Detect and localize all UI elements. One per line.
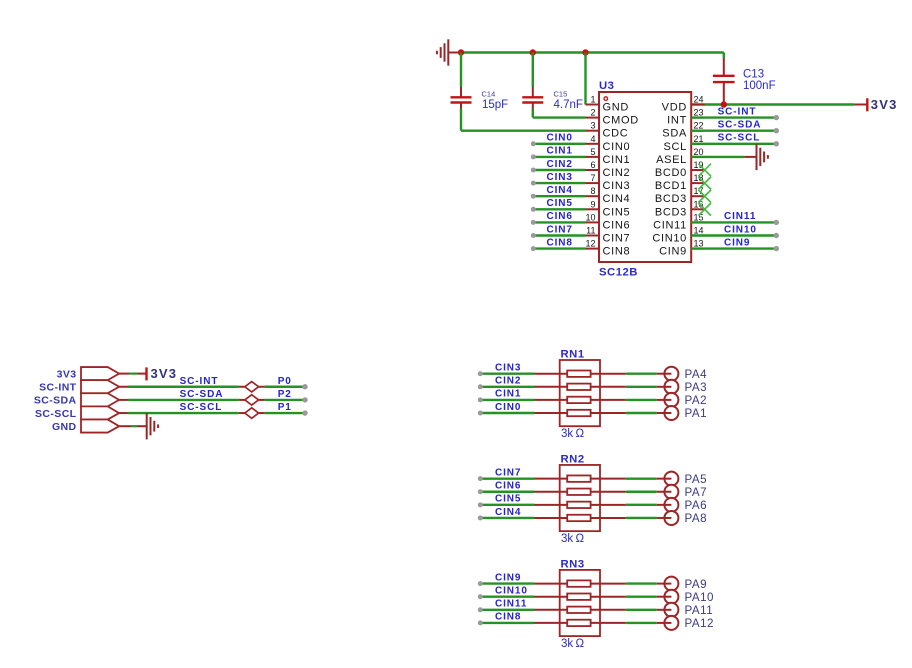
svg-text:C13: C13 [743,69,764,81]
resistor lead right RN3.2 [591,596,626,598]
wire-end dot CIN0 [478,411,483,416]
svg-text:P2: P2 [278,389,292,400]
svg-text:22: 22 [694,121,704,131]
wire RN1 row 2 to pin [626,386,657,388]
pin 11 stub [586,235,600,237]
wire SC-SCL from pin 21 [691,143,776,145]
resistor body RN1.2 [567,384,590,390]
wire-end dot CIN11 [478,607,483,612]
resistor lead right RN2.4 [591,517,626,519]
svg-text:SC-SDA: SC-SDA [34,395,77,407]
wire-end dot P2 [302,397,307,402]
resistor lead left RN1.4 [535,412,568,414]
svg-text:10: 10 [585,212,595,222]
svg-text:CIN6: CIN6 [495,481,521,492]
wire-end dot SC-SDA [774,128,779,133]
svg-text:CIN1: CIN1 [547,146,573,157]
svg-text:CIN11: CIN11 [495,599,527,610]
svg-text:CIN8: CIN8 [547,237,573,248]
pin circle PA3 [664,380,678,394]
pin circle PA10 [664,590,678,604]
resistor body RN1.4 [567,410,590,416]
power symbol 3V3 right [854,98,867,111]
pin 13 stub [691,248,705,250]
svg-text:CIN1: CIN1 [495,389,521,400]
resistor body RN2.1 [567,475,590,481]
svg-text:C14: C14 [482,89,496,98]
pin lead PA7 [657,491,672,493]
wire-end dot CIN8 [478,620,483,625]
wire CIN2 left of RN1 [481,386,535,388]
svg-text:6: 6 [590,160,595,170]
resistor body RN3.1 [567,580,590,586]
wire-end dot CIN7 [531,233,536,238]
wire C15 top lead [532,53,534,88]
svg-text:BCD3: BCD3 [655,193,687,205]
svg-text:CIN4: CIN4 [603,193,631,205]
pin 18 stub [691,182,705,184]
svg-text:VDD: VDD [662,102,687,114]
wire rail to GND pin1 [584,53,586,105]
wire-end dot CIN9 [774,246,779,251]
no-connect X pin 17 [698,190,711,203]
svg-text:U3: U3 [599,80,614,92]
wire SC-SDA row [119,399,305,401]
svg-text:GND: GND [603,102,630,114]
svg-text:SC-SDA: SC-SDA [180,389,224,400]
svg-text:CIN7: CIN7 [603,233,631,245]
capacitor C14 [451,87,472,109]
svg-text:CIN11: CIN11 [653,219,687,231]
svg-text:GND: GND [52,421,77,433]
svg-text:PA4: PA4 [685,368,708,381]
resistor lead left RN1.1 [535,373,568,375]
svg-text:PA9: PA9 [685,578,708,591]
svg-text:BCD0: BCD0 [655,167,687,179]
resistor body RN1.3 [567,397,590,403]
connector flag block [81,367,119,433]
pin 24 stub [691,104,705,106]
pin lead PA6 [657,504,672,506]
svg-text:CIN7: CIN7 [495,467,521,478]
svg-text:SC12B: SC12B [599,267,638,279]
pin lead PA3 [657,386,672,388]
svg-text:CDC: CDC [603,128,629,140]
wire CIN3 left of RN1 [481,373,535,375]
wire CIN1 to pin 5 [534,156,586,158]
no-connect X pin 19 [698,164,711,177]
resistor lead left RN3.2 [535,596,568,598]
pin 19 stub [691,169,705,171]
wire flag GND to ground [119,425,147,427]
svg-text:CIN1: CIN1 [603,154,631,166]
wire-end dot CIN5 [531,207,536,212]
pin circle PA5 [664,472,678,486]
resistor network box RN1 [560,360,600,426]
wire-end dot CIN7 [478,476,483,481]
wire RN3 row 1 to pin [626,582,657,584]
svg-text:SC-INT: SC-INT [39,381,77,393]
wire C14 top lead [460,53,462,88]
svg-text:SC-INT: SC-INT [180,376,219,387]
resistor network box RN2 [560,465,600,531]
wire-end dot CIN2 [531,168,536,173]
svg-text:CIN10: CIN10 [652,233,687,245]
wire CIN5 to pin 9 [534,208,586,210]
svg-text:3V3: 3V3 [57,368,77,380]
svg-text:CIN9: CIN9 [659,246,687,258]
wire-end dot CIN3 [531,181,536,186]
svg-text:SC-INT: SC-INT [718,106,757,117]
wire CIN7 left of RN2 [481,477,535,479]
pin circle PA7 [664,485,678,499]
no-connect X pin 16 [698,203,711,216]
wire-end dot CIN4 [478,515,483,520]
wire RN2 row 4 to pin [626,517,657,519]
pin lead PA2 [657,399,672,401]
ground symbol at connector [147,413,158,439]
pin lead PA5 [657,478,672,480]
svg-text:SDA: SDA [662,128,687,140]
pin 23 stub [691,117,705,119]
svg-text:8: 8 [590,186,595,196]
pin 10 stub [586,221,600,223]
pin 22 stub [691,130,705,132]
pin lead PA10 [657,596,672,598]
resistor lead right RN3.3 [591,609,626,611]
wire SC-SDA from pin 22 [691,129,776,131]
wire CIN3 to pin 7 [534,182,586,184]
resistor network box RN3 [560,570,600,636]
capacitor C13 [713,58,735,105]
svg-text:PA2: PA2 [685,394,708,407]
wire CIN11 left of RN3 [481,609,535,611]
wire VDD pin24 to 3V3 [691,103,854,105]
wire-end dot CIN1 [531,154,536,159]
wire RN1 row 4 to pin [626,412,657,414]
svg-text:C15: C15 [554,89,568,98]
svg-text:CIN0: CIN0 [495,402,521,413]
svg-text:CIN6: CIN6 [547,211,573,222]
pin circle PA9 [664,577,678,591]
pin circle PA4 [664,367,678,381]
wire-end dot CIN10 [774,233,779,238]
svg-text:CIN10: CIN10 [495,586,528,597]
pin 3 stub [586,130,600,132]
wire RN2 row 2 to pin [626,491,657,493]
svg-text:PA5: PA5 [685,473,708,486]
pin 21 stub [691,143,705,145]
pin lead PA11 [657,609,672,611]
wire CIN4 left of RN2 [481,517,535,519]
resistor body RN2.3 [567,502,590,508]
pin circle PA8 [664,511,678,525]
svg-text:SC-SDA: SC-SDA [718,120,762,131]
svg-text:PA11: PA11 [685,604,714,617]
pin 12 stub [586,248,600,250]
svg-text:100nF: 100nF [743,80,776,92]
svg-text:CIN3: CIN3 [495,363,521,374]
svg-text:CIN0: CIN0 [547,133,573,144]
svg-text:PA1: PA1 [685,407,708,420]
pin 4 stub [586,143,600,145]
wire CIN7 to pin 11 [534,234,586,236]
wire-end dot CIN2 [478,384,483,389]
pin lead PA4 [657,373,672,375]
no-connect X pin 18 [698,177,711,190]
pin lead PA9 [657,583,672,585]
svg-text:RN1: RN1 [561,348,585,360]
pin circle PA1 [664,406,678,420]
wire-end dot CIN5 [478,502,483,507]
wire RN2 row 1 to pin [626,477,657,479]
pin 7 stub [586,182,600,184]
resistor lead right RN2.3 [591,504,626,506]
svg-text:PA8: PA8 [685,512,708,525]
wire CIN9 left of RN3 [481,582,535,584]
svg-text:P0: P0 [278,376,292,387]
svg-text:PA3: PA3 [685,381,708,394]
pin 6 stub [586,169,600,171]
wire CIN10 from pin 14 [691,234,776,236]
svg-text:ASEL: ASEL [656,154,687,166]
pin lead PA12 [657,622,672,624]
wire C15 bottom to CMOD pin2 [533,109,586,118]
junction at C15 top [530,49,536,55]
wire-end dot P0 [302,384,307,389]
svg-text:CIN4: CIN4 [547,185,573,196]
pin 1 stub [586,104,600,106]
resistor lead left RN2.3 [535,504,568,506]
svg-text:CMOD: CMOD [603,115,639,127]
svg-text:CIN9: CIN9 [724,237,750,248]
svg-text:3V3: 3V3 [871,97,898,112]
wire SC-INT row [119,386,305,388]
resistor body RN2.4 [567,515,590,521]
pin circle PA2 [664,393,678,407]
wire SC-INT from pin 23 [691,116,776,118]
svg-text:2: 2 [590,108,595,118]
svg-text:12: 12 [585,239,595,249]
svg-text:CIN2: CIN2 [603,167,631,179]
svg-text:13: 13 [694,239,704,249]
svg-text:CIN7: CIN7 [547,224,573,235]
wire-end dot CIN3 [478,371,483,376]
junction C13 at VDD wire [721,101,727,107]
diamond SC-SCL [245,408,259,418]
wire CIN8 left of RN3 [481,622,535,624]
svg-text:21: 21 [694,134,704,144]
pin 16 stub [691,208,705,210]
svg-text:CIN2: CIN2 [547,159,573,170]
svg-text:3k Ω: 3k Ω [561,428,584,440]
svg-text:24: 24 [694,95,704,105]
resistor body RN3.2 [567,594,590,600]
svg-text:CIN5: CIN5 [495,494,521,505]
pin 14 stub [691,235,705,237]
pin lead PA1 [657,412,672,414]
svg-text:SC-SCL: SC-SCL [718,133,761,144]
svg-text:CIN9: CIN9 [495,572,521,583]
wire ASEL pin20 to ground [691,156,756,158]
svg-text:BCD1: BCD1 [655,180,687,192]
svg-text:CIN8: CIN8 [495,612,521,623]
wire flag 3V3 to power symbol [119,373,146,375]
svg-text:7: 7 [590,173,595,183]
resistor lead left RN2.1 [535,478,568,480]
resistor lead right RN3.4 [591,622,626,624]
pin 5 stub [586,156,600,158]
wire-end dot SC-INT [774,115,779,120]
svg-text:20: 20 [694,147,704,157]
wire CIN4 to pin 8 [534,195,586,197]
wire-end dot CIN0 [531,141,536,146]
svg-text:15pF: 15pF [482,99,508,111]
svg-text:SCL: SCL [664,141,688,153]
wire CIN6 to pin 10 [534,221,586,223]
diamond SC-INT [245,382,259,392]
ground symbol top-left [448,52,459,54]
svg-text:PA6: PA6 [685,499,708,512]
wire-end dot CIN1 [478,397,483,402]
pin1 marker dot [604,97,608,101]
pin lead PA8 [657,517,672,519]
wire RN1 row 3 to pin [626,399,657,401]
wire CIN0 left of RN1 [481,412,535,414]
svg-text:SC-SCL: SC-SCL [180,402,223,413]
svg-text:CIN6: CIN6 [603,219,631,231]
svg-text:23: 23 [694,108,704,118]
resistor lead left RN3.3 [535,609,568,611]
resistor body RN3.3 [567,607,590,613]
capacitor C15 [522,87,543,109]
wire-end dot CIN8 [531,246,536,251]
wire-end dot CIN10 [478,594,483,599]
svg-text:CIN11: CIN11 [724,211,756,222]
svg-text:1: 1 [590,95,595,105]
wire-end dot P1 [302,410,307,415]
svg-text:4.7nF: 4.7nF [554,99,583,111]
diamond SC-SDA [245,395,259,405]
wire-end dot CIN6 [531,220,536,225]
wire CIN6 left of RN2 [481,491,535,493]
power symbol 3V3 left [145,367,147,380]
ground symbol at ASEL [757,144,768,170]
svg-text:3k Ω: 3k Ω [561,638,584,650]
svg-text:14: 14 [694,226,704,236]
junction at pin1 branch [582,49,588,55]
wire RN3 row 2 to pin [626,596,657,598]
resistor lead left RN1.2 [535,386,568,388]
pin 2 stub [586,117,600,119]
pin circle PA12 [664,616,678,630]
svg-text:4: 4 [590,134,595,144]
resistor lead left RN1.3 [535,399,568,401]
resistor lead left RN2.2 [535,491,568,493]
svg-text:CIN2: CIN2 [495,376,521,387]
svg-text:PA10: PA10 [685,591,715,604]
svg-text:CIN5: CIN5 [547,198,573,209]
wire-end dot SC-SCL [774,141,779,146]
resistor lead right RN2.1 [591,478,626,480]
resistor lead left RN3.4 [535,622,568,624]
wire RN1 row 1 to pin [626,373,657,375]
svg-text:15: 15 [694,212,704,222]
wire-end dot CIN11 [774,220,779,225]
wire CIN10 left of RN3 [481,596,535,598]
resistor lead right RN1.1 [591,373,626,375]
pin 8 stub [586,195,600,197]
svg-text:CIN4: CIN4 [495,507,521,518]
svg-text:CIN3: CIN3 [603,180,631,192]
wire 3V3 top rail [461,51,724,53]
wire CIN8 to pin 12 [534,247,586,249]
svg-text:BCD3: BCD3 [655,206,687,218]
wire CIN2 to pin 6 [534,169,586,171]
svg-text:RN3: RN3 [561,558,585,570]
svg-text:INT: INT [667,115,687,127]
svg-text:5: 5 [590,147,595,157]
wire CIN9 from pin 13 [691,247,776,249]
svg-text:P1: P1 [278,402,292,413]
wire SC-SCL row [119,412,305,414]
svg-text:CIN8: CIN8 [603,246,631,258]
svg-text:CIN10: CIN10 [724,224,757,235]
pin 9 stub [586,208,600,210]
resistor lead left RN2.4 [535,517,568,519]
wire-end dot CIN4 [531,194,536,199]
resistor lead right RN1.2 [591,386,626,388]
svg-text:CIN3: CIN3 [547,172,573,183]
svg-text:CIN0: CIN0 [603,141,631,153]
wire CIN0 to pin 4 [534,143,586,145]
wire CIN11 from pin 15 [691,221,776,223]
pin circle PA11 [664,603,678,617]
wire RN2 row 3 to pin [626,504,657,506]
svg-text:SC-SCL: SC-SCL [35,408,77,420]
svg-text:CIN5: CIN5 [603,206,631,218]
wire-end dot CIN6 [478,489,483,494]
pin circle PA6 [664,498,678,512]
svg-text:PA7: PA7 [685,486,708,499]
wire RN3 row 3 to pin [626,609,657,611]
svg-text:3V3: 3V3 [151,366,178,381]
svg-text:RN2: RN2 [561,453,585,465]
svg-text:11: 11 [586,226,595,236]
svg-text:9: 9 [590,199,595,209]
resistor lead right RN1.3 [591,399,626,401]
wire C13 top lead [723,53,725,59]
pin 17 stub [691,195,705,197]
pin 15 stub [691,221,705,223]
resistor lead left RN3.1 [535,583,568,585]
wire C14 bottom to CDC pin3 [461,109,586,131]
svg-text:PA12: PA12 [685,617,715,630]
resistor lead right RN2.2 [591,491,626,493]
resistor body RN2.2 [567,489,590,495]
junction at ground / C14 top [458,49,464,55]
op-amp IC U3 body [599,92,691,262]
wire CIN1 left of RN1 [481,399,535,401]
wire RN3 row 4 to pin [626,622,657,624]
pin 20 stub [691,156,705,158]
resistor lead right RN1.4 [591,412,626,414]
wire CIN5 left of RN2 [481,504,535,506]
svg-text:3k Ω: 3k Ω [561,533,584,545]
svg-text:3: 3 [590,121,595,131]
resistor body RN3.4 [567,620,590,626]
resistor lead right RN3.1 [591,583,626,585]
